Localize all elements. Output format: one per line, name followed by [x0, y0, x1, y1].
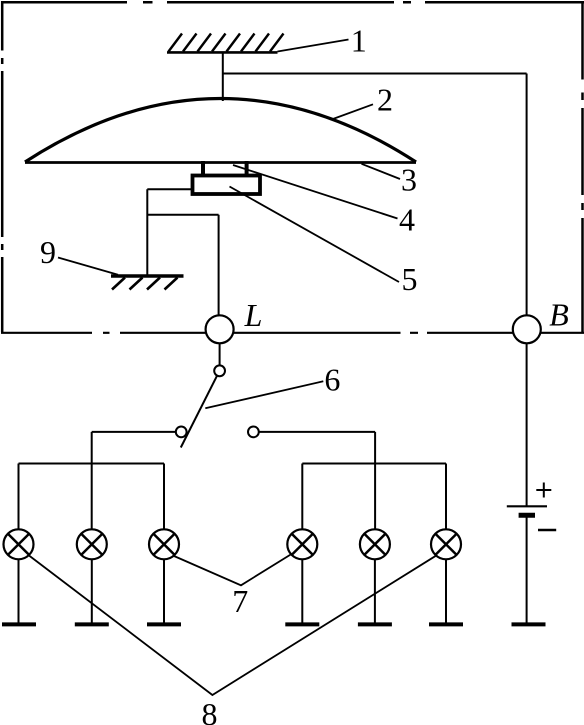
lamp 5	[360, 529, 390, 559]
lamp 3	[149, 529, 179, 559]
svg-text:7: 7	[232, 583, 248, 619]
wire from ceiling stem right to terminal B	[223, 73, 527, 75]
lamp 4 ground bar	[285, 622, 319, 626]
lamp 6	[431, 529, 461, 559]
wire from left contact to left lamp group	[92, 432, 176, 530]
leader lines for label 7	[174, 555, 291, 586]
svg-text:B: B	[549, 297, 569, 333]
leader line for label 6	[205, 381, 323, 408]
wire from B down to battery	[526, 343, 528, 505]
enclosure frame left edge (chain line)	[1, 1, 4, 332]
terminal L	[206, 315, 234, 343]
lamp holder stem right	[245, 161, 249, 175]
ground bar 9	[111, 274, 184, 278]
lamp 5 ground bar	[358, 622, 392, 626]
battery minus sign	[538, 529, 556, 531]
lamp 2 ground wire	[91, 559, 93, 623]
leader line for label 5	[230, 187, 400, 283]
lamp 2	[77, 529, 107, 559]
leader line for label 2	[333, 104, 373, 119]
branch wire to terminal L	[147, 214, 218, 216]
wire from L down to switch pole	[219, 343, 221, 365]
lamp 1 ground bar	[2, 622, 36, 626]
ceiling mount bar	[167, 51, 278, 54]
lamp 6 ground bar	[429, 622, 463, 626]
wire from battery down to ground	[526, 516, 528, 623]
svg-text:2: 2	[377, 82, 393, 118]
lamp 4 ground wire	[301, 559, 303, 623]
svg-text:9: 9	[40, 234, 56, 270]
battery negative plate	[519, 513, 535, 518]
svg-text:8: 8	[202, 696, 218, 725]
enclosure frame right edge (chain line)	[581, 1, 584, 333]
battery ground bar	[512, 622, 546, 626]
leader lines for label 8	[29, 556, 436, 696]
svg-text:3: 3	[401, 162, 417, 198]
bulb box 5	[193, 176, 261, 195]
leader line for label 1	[278, 40, 349, 52]
lamp 1	[4, 529, 34, 559]
leader line for label 4	[233, 165, 398, 219]
switch blade	[181, 376, 217, 448]
svg-text:6: 6	[324, 362, 340, 398]
wire from box left side	[147, 188, 191, 190]
svg-text:5: 5	[402, 261, 418, 297]
svg-text:1: 1	[351, 23, 367, 59]
wire down to terminal B	[526, 74, 528, 317]
switch left contact circle	[176, 427, 187, 438]
wire from right contact to right lamp group	[259, 432, 375, 530]
lamp 2 ground bar	[75, 622, 109, 626]
enclosure frame top edge (chain line)	[1, 1, 584, 4]
svg-text:L: L	[244, 297, 263, 333]
dome reflector arc 2	[25, 99, 416, 163]
wire down to terminal L	[218, 215, 220, 317]
battery positive plate	[507, 505, 547, 507]
lamp holder stem left 4	[201, 161, 205, 175]
right lamp group bus	[302, 464, 446, 530]
dome base line 3	[25, 161, 416, 164]
switch pole contact circle	[214, 365, 225, 376]
lamp 5 ground wire	[374, 559, 376, 623]
leader line for label 3	[362, 164, 401, 179]
lamp 4	[287, 529, 317, 559]
left lamp group bus	[19, 464, 165, 530]
lamp 1 ground wire	[18, 559, 20, 623]
svg-text:4: 4	[399, 202, 415, 238]
lamp 3 ground wire	[163, 559, 165, 623]
battery plus sign	[536, 483, 551, 498]
switch right contact circle	[248, 427, 259, 438]
wire down to ground 9	[146, 189, 148, 274]
terminal B	[513, 315, 541, 343]
lamp 6 ground wire	[445, 559, 447, 623]
ground hatching 9	[112, 278, 178, 290]
enclosure frame bottom edge (chain line) through L and B	[1, 332, 584, 334]
ceiling mount hatching	[169, 34, 284, 52]
lamp 3 ground bar	[147, 622, 181, 626]
leader line for label 9	[58, 258, 118, 275]
wire from ceiling mount down to dome apex	[222, 53, 224, 101]
